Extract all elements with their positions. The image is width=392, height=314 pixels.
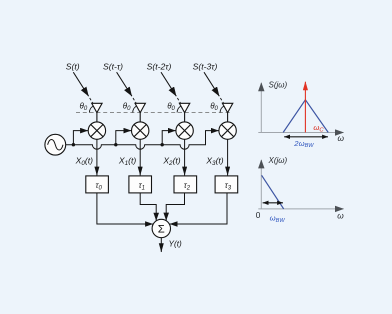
- node LO tap 2: [114, 143, 117, 146]
- wire mixer 3 output: [184, 139, 186, 175]
- plot S(jw): spectrum triangle: [283, 100, 328, 133]
- wire mixer 2 output: [139, 139, 141, 175]
- wire antenna 3 feed: [184, 113, 186, 122]
- mixer 4: [219, 122, 236, 139]
- angle arc theta0 antenna 4: [220, 106, 224, 112]
- mixer 3: [176, 122, 193, 139]
- wavefront dashed line: [76, 112, 230, 114]
- wire LO branch 2: [116, 131, 131, 145]
- svg-text:0: 0: [256, 210, 261, 220]
- svg-text:Y(t): Y(t): [169, 240, 182, 249]
- wire antenna 2 feed: [139, 113, 141, 122]
- angle arc theta0 antenna 1: [89, 106, 93, 112]
- wire tau3 to summer: [170, 193, 227, 224]
- delay block tau1: [129, 176, 152, 193]
- svg-text:ω: ω: [338, 133, 345, 143]
- plot S(jw): y-axis: [260, 83, 262, 133]
- wire antenna 4 feed: [227, 113, 229, 122]
- antenna 4: [222, 103, 232, 112]
- svg-text:X(jω): X(jω): [268, 156, 288, 165]
- svg-text:S(t-2τ): S(t-2τ): [147, 61, 172, 71]
- wire incoming ray 2: [117, 72, 141, 110]
- wire tau2 to summer: [166, 193, 184, 221]
- node LO tap 3: [161, 143, 164, 146]
- plot S(jw): carrier red arrow: [304, 82, 306, 133]
- wire antenna 1 feed: [96, 113, 98, 122]
- plot X(jw): x-axis: [258, 208, 343, 210]
- oscillator: [45, 134, 66, 155]
- antenna 1: [92, 103, 102, 112]
- mixer 2: [132, 122, 149, 139]
- delay block tau0: [86, 176, 109, 193]
- svg-text:S(jω): S(jω): [269, 81, 288, 90]
- svg-text:S(t-τ): S(t-τ): [103, 61, 123, 71]
- plot X(jw): bandwidth dimension arrow: [263, 202, 283, 204]
- node LO tap 1: [72, 143, 75, 146]
- wire mixer 1 output: [96, 139, 98, 175]
- plot S(jw): x-axis: [258, 132, 343, 134]
- wire tau1 to summer: [140, 193, 156, 221]
- wire incoming ray 4: [204, 72, 228, 110]
- antenna 2: [135, 103, 145, 112]
- plot X(jw): baseband spectrum line: [262, 175, 284, 209]
- wire summer output Y(t): [160, 238, 162, 252]
- svg-text:S(t-3τ): S(t-3τ): [193, 61, 218, 71]
- angle arc theta0 antenna 3: [177, 106, 181, 112]
- wire incoming ray 1: [73, 72, 97, 110]
- plot S(jw): bandwidth dimension arrow: [284, 136, 328, 138]
- wire tau0 to summer: [97, 193, 153, 224]
- wire LO branch 1: [73, 131, 88, 145]
- delay block tau3: [215, 176, 238, 193]
- wire mixer 4 output: [227, 139, 229, 175]
- mixer 1: [88, 122, 105, 139]
- plot X(jw): y-axis: [260, 160, 262, 209]
- delay block tau2: [174, 176, 197, 193]
- summer U-sigma: [152, 219, 170, 237]
- wire incoming ray 3: [161, 72, 185, 110]
- wire LO branch 3: [162, 131, 175, 145]
- svg-text:S(t): S(t): [66, 61, 80, 71]
- angle arc theta0 antenna 2: [133, 106, 137, 112]
- antenna 3: [179, 103, 189, 112]
- svg-text:ω: ω: [337, 211, 344, 221]
- svg-text:Σ: Σ: [158, 224, 165, 236]
- wire LO rail with hops: [66, 131, 219, 150]
